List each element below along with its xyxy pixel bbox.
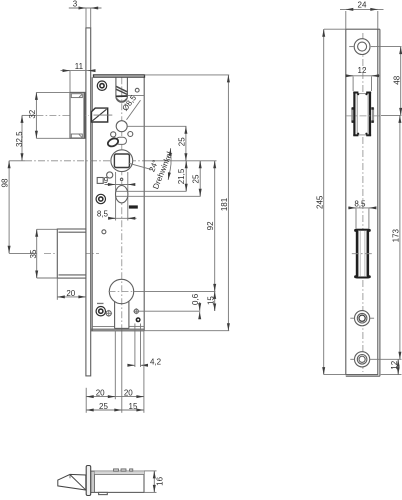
dimension 0,6 [139,293,201,318]
lock case left wall [91,77,93,331]
dimension 4,2 [128,324,162,368]
deadbolt window centreline [352,253,374,255]
cross hole right [133,308,139,314]
small hole below screw [102,230,106,234]
small circle pair [111,132,133,137]
dimension 181 [144,75,229,331]
detail faceplate section [86,466,91,496]
dimension 245 [316,29,346,374]
dimension 35 [29,229,57,278]
dimension 15 (cylinder to screw) [206,291,215,311]
euro profile cylinder hole [109,279,134,328]
dimension 24 [340,1,384,29]
dimension 11 [61,62,96,93]
svg-text:20: 20 [124,388,133,397]
dimension 20 (deadbolt) [57,278,86,300]
oval hole below follower [116,186,128,203]
dimension 12 (bottom) [381,359,402,374]
plate vertical centreline [362,33,364,372]
dimension 12 (latch window) [346,66,379,91]
latch window with latch bolt (front) [351,92,374,136]
dimension 9 [104,176,135,185]
dimension 25 upper [127,126,186,161]
dimension 98 [1,161,10,253]
wire: centreline follower y=160.8 [9,160,216,162]
latch bolt head (protruding) [70,92,85,138]
svg-text:32,5: 32,5 [15,131,24,147]
dimension 8,5 (left view) [97,210,137,219]
leader line Ø8,5 [127,100,141,120]
dimension 32 [28,92,70,138]
small circle above square [107,172,113,178]
svg-text:8,5: 8,5 [354,200,366,209]
svg-text:21,5: 21,5 [177,168,186,184]
svg-text:0,6: 0,6 [191,293,200,305]
svg-text:20: 20 [96,388,105,397]
dimension 32,5 [15,115,24,160]
svg-text:24: 24 [358,1,367,10]
wire: case inner line right of latch channel [127,94,144,96]
wire: main vertical centreline x=121.8 [121,77,123,413]
dimension 25 lower [116,161,201,197]
lock case bottom edge [91,326,145,330]
wire: centreline latch (dash-dot) [22,114,36,116]
svg-text:20: 20 [66,289,75,298]
svg-text:12: 12 [390,360,399,369]
follower hub circle [111,150,133,172]
svg-text:35: 35 [29,249,38,258]
small hole upper right [135,88,139,92]
wire: centreline deadbolt y=253.4 [9,252,99,254]
latch body (side section) [91,471,144,492]
torx screw lower [96,194,105,203]
deadbolt head (protruding) [57,229,86,278]
detail top tabs [114,469,133,471]
svg-text:98: 98 [1,178,10,187]
tilted oval detail [107,137,127,148]
faceplate side view (Stulp) [86,28,91,376]
deadbolt window (front) [354,229,371,278]
svg-text:25: 25 [99,402,108,411]
leader 24 degrees [129,163,153,170]
dimension 3 (top) [69,0,102,28]
hole Ø8.5 [116,121,127,132]
bottom screw hole [350,352,401,367]
svg-text:173: 173 [392,228,401,242]
svg-text:92: 92 [206,221,215,230]
detail bottom foot [99,492,108,494]
detail latch bolt wedge [58,474,86,490]
dimension 8,5 (plate) [348,200,376,229]
tiny circle below follower [120,178,122,180]
svg-text:8,5: 8,5 [97,210,109,219]
lock case top cap [94,75,145,77]
latch spring diagonal band [116,86,128,96]
latch bolt channel inside case [116,77,128,102]
svg-text:48: 48 [392,75,401,84]
lock case right wall [143,77,145,331]
svg-text:9: 9 [104,176,109,185]
small cross hole next to screw [105,310,112,317]
svg-text:15: 15 [206,296,215,305]
top screw hole [349,39,375,55]
svg-text:4,2: 4,2 [150,358,162,367]
svg-text:16: 16 [156,476,165,485]
svg-text:11: 11 [75,62,84,71]
dark slot rectangle [129,205,138,208]
dimension 16 [144,471,165,493]
dimension 21,5 [116,161,187,192]
cover plate face [346,29,380,376]
rotation arc Drehwinkel [168,148,171,180]
dimension 48 [376,47,402,116]
small square detail [97,178,103,184]
dimension row 20 / 20 [86,388,144,397]
svg-text:12: 12 [358,66,367,75]
torx screw upper [97,81,106,90]
svg-text:25: 25 [177,137,186,146]
svg-text:25: 25 [192,174,201,183]
torx screw bottom left [96,307,105,316]
svg-text:3: 3 [73,0,78,9]
follower slot walls [115,172,117,221]
auxiliary bolt (side) [92,108,113,122]
dimension 92 [134,161,216,292]
tiny marking above screw [97,303,104,304]
svg-text:32: 32 [28,109,37,118]
dimension row 25 / 15 [86,402,144,411]
dimension 173 [392,115,401,359]
follower square 9mm [114,154,129,168]
svg-text:15: 15 [129,402,138,411]
dark hole 4.2 [136,317,141,322]
latch window horizontal centreline [347,115,381,117]
middle screw hole [350,311,374,326]
svg-text:181: 181 [220,197,229,211]
extension lines below case [86,331,144,413]
svg-text:245: 245 [316,195,325,209]
